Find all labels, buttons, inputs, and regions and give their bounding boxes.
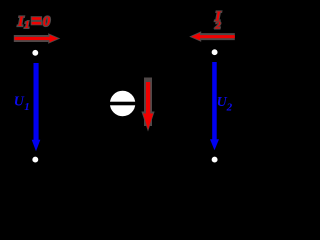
- voltage arrow U2: [210, 62, 219, 150]
- current source: [109, 90, 137, 116]
- label U2: [217, 95, 233, 114]
- svg-text:0: 0: [43, 14, 51, 30]
- label U1: [14, 94, 30, 113]
- svg-text:1: 1: [24, 101, 30, 113]
- terminal top-left: [32, 49, 39, 56]
- wire middle upper: [122, 53, 124, 92]
- wire bottom: [35, 159, 214, 161]
- terminal bottom-right: [211, 156, 218, 163]
- svg-text:2: 2: [214, 20, 221, 32]
- wire middle lower: [122, 115, 124, 160]
- terminal bottom-left: [32, 156, 39, 163]
- label I1=0: [17, 14, 51, 31]
- voltage arrow U1: [32, 63, 41, 151]
- source current arrow: [141, 78, 154, 132]
- wire top: [35, 52, 214, 54]
- terminal top-right: [211, 49, 218, 56]
- svg-text:2: 2: [226, 102, 233, 114]
- current arrow I2: [189, 31, 235, 42]
- current arrow I1: [14, 33, 61, 44]
- svg-text:1: 1: [24, 19, 30, 31]
- svg-text:U: U: [14, 94, 25, 109]
- label I2: [214, 9, 222, 32]
